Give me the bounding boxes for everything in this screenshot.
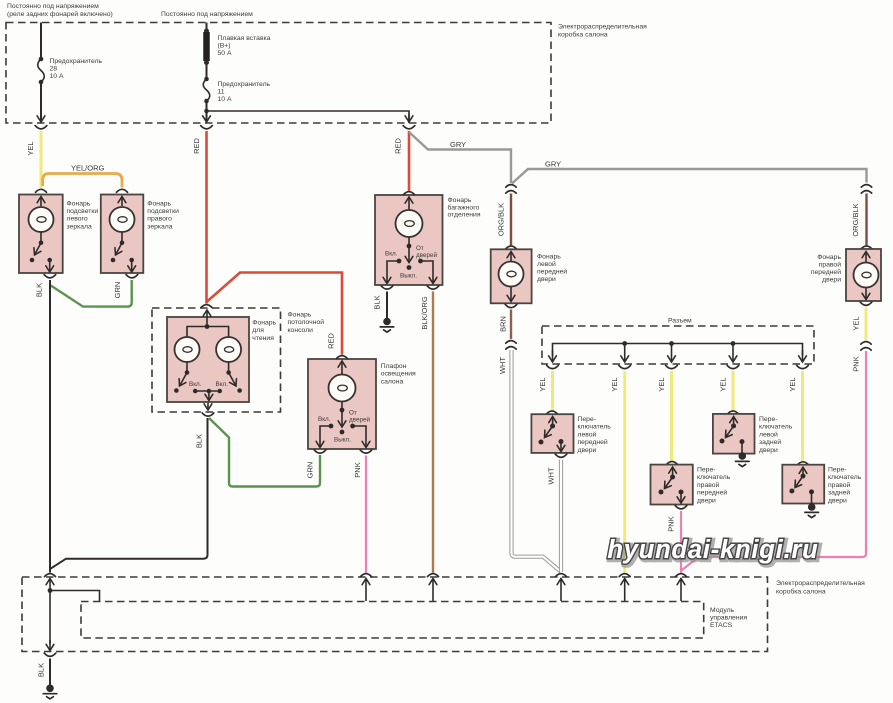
label: luggage lamp — [448, 197, 481, 219]
wire: fuse 28 to box edge, exit arrow — [40, 82, 42, 122]
svg-text:Плафон: Плафон — [381, 363, 407, 370]
svg-text:Вкл.: Вкл. — [189, 381, 202, 388]
svg-text:дверей: дверей — [349, 416, 370, 424]
wire BLK left mirror down — [49, 280, 51, 573]
label: Vkl right — [216, 381, 229, 388]
connector cup: left front switch bottom — [555, 454, 567, 457]
svg-text:RED: RED — [327, 333, 336, 349]
switch arm: left mirror lamp — [30, 232, 44, 262]
label: right front door lamp — [811, 254, 842, 284]
svg-text:Плавкая вставка: Плавкая вставка — [218, 35, 271, 42]
svg-text:ETACS: ETACS — [710, 622, 733, 629]
junction box bottom dashed box — [22, 577, 768, 652]
svg-text:Фонарь: Фонарь — [67, 200, 91, 207]
label: luggage Vkl — [385, 251, 398, 258]
label: luggage Vykl — [400, 273, 417, 280]
svg-text:Предохранитель: Предохранитель — [50, 58, 103, 65]
svg-text:левого: левого — [67, 216, 88, 223]
node: bus junction 2 — [669, 341, 674, 346]
svg-text:Фонарь: Фонарь — [537, 254, 561, 261]
connector cup: luggage lamp top — [404, 192, 415, 195]
label: BLK luggage — [373, 295, 382, 309]
wire YEL/ORG mirror lamp jumper — [43, 174, 122, 188]
connector cup: right rear switch top — [798, 462, 809, 465]
inline connector YEL/PNK — [861, 342, 871, 351]
luggage lamp box — [375, 195, 443, 285]
svg-text:багажного: багажного — [448, 203, 480, 211]
svg-text:двери: двери — [759, 447, 778, 454]
label: YEL drop 3 — [657, 377, 666, 391]
svg-text:управления: управления — [710, 615, 747, 622]
svg-text:левой: левой — [578, 430, 597, 438]
svg-text:YEL: YEL — [788, 377, 797, 391]
wire BLK to ground — [49, 659, 51, 686]
svg-text:задней: задней — [759, 438, 781, 446]
label: junction box top — [558, 24, 647, 39]
connector cup: right door lamp bottom — [860, 302, 872, 305]
label: Vkl left — [189, 381, 202, 388]
connector cup: right front switch top — [667, 462, 678, 465]
svg-text:двери: двери — [828, 497, 847, 504]
wire: fuse 11 junction and branch to right exit — [204, 101, 409, 123]
label: razyem — [668, 318, 692, 325]
label: left front door lamp — [537, 254, 567, 284]
svg-text:задней: задней — [828, 489, 850, 497]
switch: right rear door — [782, 465, 824, 504]
pin: right mirror lamp bottom — [126, 258, 138, 278]
switch: left rear door — [713, 414, 755, 454]
switch: right front door — [651, 465, 693, 505]
wire YEL to left rear door switch — [732, 371, 735, 410]
label: salon lamp — [381, 363, 416, 385]
svg-text:двери: двери — [537, 276, 556, 283]
label: salon Ot dverey — [349, 410, 370, 424]
bulb: left mirror lamp — [29, 197, 54, 233]
label: left front door switch — [578, 416, 612, 454]
svg-text:Постоянно под напряжением: Постоянно под напряжением — [161, 11, 253, 18]
connector cup: salon lamp top — [337, 356, 348, 359]
svg-text:BLK: BLK — [37, 663, 46, 677]
pin: luggage lamp bottom left — [381, 261, 399, 289]
svg-text:PNK: PNK — [353, 462, 362, 477]
svg-text:правого: правого — [147, 216, 172, 223]
pin: luggage lamp bottom right — [421, 261, 439, 289]
label: right mirror lamp — [147, 200, 179, 230]
connector cup: console top — [201, 305, 212, 308]
svg-text:правой: правой — [819, 261, 842, 269]
switch arm: reading lamp right — [226, 362, 242, 393]
connector cup: left door lamp top — [506, 246, 517, 249]
svg-text:BLK: BLK — [195, 434, 204, 448]
svg-text:От: От — [416, 245, 424, 252]
wire ORG/BLK to right front door lamp — [865, 194, 867, 246]
node: bus junction 3 — [731, 341, 736, 346]
svg-text:левой: левой — [759, 430, 778, 438]
svg-text:Выкл.: Выкл. — [334, 437, 351, 444]
svg-text:10 А: 10 А — [50, 73, 64, 80]
svg-text:двери: двери — [578, 447, 597, 454]
svg-text:BLK: BLK — [373, 295, 382, 309]
svg-text:отделения: отделения — [448, 212, 481, 219]
bulb: salon lamp — [329, 361, 356, 402]
wire WHT switch down — [559, 460, 563, 573]
label: ORG/BLK right — [851, 203, 860, 236]
wire: feed to fuse 28 — [40, 23, 42, 60]
switch: luggage lamp — [397, 237, 423, 270]
label: GRN mirror — [113, 282, 122, 299]
svg-text:GRY: GRY — [545, 160, 561, 169]
bulb: left front door lamp — [499, 252, 524, 302]
label: ORG/BLK left — [497, 203, 506, 236]
svg-text:Фонарь: Фонарь — [817, 254, 841, 261]
label: BRN — [499, 316, 508, 332]
svg-text:WHT: WHT — [547, 467, 556, 484]
svg-text:GRY: GRY — [450, 140, 466, 149]
wire: feed to fusible link — [206, 23, 208, 32]
label: YEL — [26, 141, 35, 155]
svg-text:передней: передней — [578, 438, 608, 446]
svg-text:Разъем: Разъем — [668, 318, 692, 325]
wire PNK right door lamp to junction box — [681, 351, 866, 571]
label: BLK console — [195, 434, 204, 448]
svg-text:Вкл.: Вкл. — [385, 251, 398, 258]
ground: left rear switch — [736, 452, 750, 466]
svg-text:чтения: чтения — [252, 335, 274, 342]
wire WHT lamp down to junction box — [512, 350, 562, 572]
label: YEL drop 4 — [719, 377, 728, 391]
svg-text:YEL: YEL — [719, 377, 728, 391]
svg-text:GRN: GRN — [113, 282, 122, 299]
label: left mirror lamp — [67, 200, 99, 230]
svg-text:Фонарь: Фонарь — [147, 200, 171, 207]
label: YEL drop 1 — [538, 377, 547, 391]
label: GRN salon — [306, 462, 315, 479]
watermark — [607, 536, 820, 566]
connector cup: left mirror lamp top — [36, 189, 47, 192]
label: fuse 11 value — [218, 81, 271, 103]
bulb: right front door lamp — [854, 252, 879, 300]
svg-text:RED: RED — [394, 138, 403, 154]
pin: razyem drop 2 — [619, 344, 631, 369]
pin: razyem drop 4 — [727, 344, 739, 369]
label: RED right — [394, 138, 403, 154]
svg-text:BLK: BLK — [35, 283, 44, 297]
svg-text:YEL: YEL — [610, 377, 619, 391]
svg-text:Выкл.: Выкл. — [400, 273, 417, 280]
label: fuse 28 value — [50, 58, 103, 80]
label: WHT lamp — [498, 357, 507, 374]
svg-text:ключатель: ключатель — [759, 424, 793, 431]
node: bus junction 1 — [622, 341, 627, 346]
bulb: luggage lamp — [396, 197, 423, 237]
switch: salon lamp — [329, 402, 355, 435]
label: WHT switch — [547, 467, 556, 484]
label: power feed left — [7, 3, 113, 18]
pin: reading lamp top arrow — [205, 310, 210, 329]
pin: razyem drop 1 — [547, 350, 559, 369]
svg-text:потолочной: потолочной — [288, 318, 325, 326]
connector bus line — [553, 344, 803, 357]
label: reading lamp — [252, 320, 276, 342]
connector cup: right mirror lamp top — [117, 189, 128, 192]
label: GRY 2 — [545, 160, 561, 169]
label: YEL/ORG — [71, 164, 105, 173]
bulb: reading lamp left — [175, 327, 208, 363]
svg-text:ключатель: ключатель — [578, 424, 612, 431]
connector cup: YEL exit — [35, 126, 47, 129]
svg-text:салона: салона — [381, 378, 404, 385]
label: power feed middle — [161, 11, 253, 18]
pin: razyem drop 5 — [797, 350, 809, 369]
svg-text:зеркала: зеркала — [67, 223, 92, 230]
pin: salon lamp bottom right — [353, 426, 372, 453]
svg-text:двери: двери — [697, 497, 716, 504]
svg-text:Фонарь: Фонарь — [252, 320, 276, 327]
label: salon Vykl — [334, 437, 351, 444]
ground: main BLK — [43, 685, 57, 699]
wire YEL right down — [865, 308, 868, 341]
ground: right rear switch — [805, 503, 819, 517]
svg-text:двери: двери — [822, 277, 841, 284]
svg-text:hyundai-knigi.ru: hyundai-knigi.ru — [607, 536, 818, 564]
label: RED left — [192, 138, 201, 154]
left front door lamp box — [491, 249, 532, 303]
label: YEL drop 2 — [610, 377, 619, 391]
svg-text:ключатель: ключатель — [697, 474, 731, 481]
svg-text:YEL/ORG: YEL/ORG — [71, 164, 105, 173]
wire YEL to right rear door switch — [801, 371, 804, 461]
entry: PNK switches into junction box — [676, 574, 687, 601]
wire PNK salon lamp down — [365, 456, 367, 573]
wire RED to ceiling console — [205, 131, 208, 304]
svg-text:ORG/BLK: ORG/BLK — [497, 203, 506, 236]
bulb: reading lamp right — [207, 327, 241, 363]
switch arm: reading lamp left — [174, 362, 189, 393]
svg-text:YEL: YEL — [538, 377, 547, 391]
svg-text:BLK/ORG: BLK/ORG — [420, 296, 429, 330]
label: salon Vkl — [318, 416, 331, 423]
label: right front door switch — [697, 467, 731, 505]
connector cup: left front switch top — [547, 411, 558, 414]
lamp: right mirror illumination box — [101, 195, 144, 274]
svg-text:Вкл.: Вкл. — [216, 381, 229, 388]
svg-text:Пере-: Пере- — [578, 416, 597, 423]
svg-text:PNK: PNK — [667, 516, 676, 531]
fuse F11 — [203, 77, 210, 104]
label: RED salon — [327, 333, 336, 349]
svg-text:BRN: BRN — [499, 316, 508, 332]
entry: BLK/ORG into junction box — [428, 574, 439, 601]
svg-text:передней: передней — [811, 268, 841, 276]
wire ORG/BLK to left front door lamp — [510, 194, 512, 246]
label: luggage Ot dverey — [416, 245, 437, 259]
label: PNK right — [852, 356, 861, 371]
svg-text:передней: передней — [537, 268, 567, 276]
svg-text:WHT: WHT — [498, 357, 507, 374]
wire YEL from junction box — [40, 131, 43, 188]
svg-text:Пере-: Пере- — [828, 467, 847, 474]
svg-text:YEL: YEL — [26, 141, 35, 155]
ceiling console dashed box — [152, 308, 281, 412]
svg-text:PNK: PNK — [852, 356, 861, 371]
svg-text:коробка салона: коробка салона — [558, 31, 608, 39]
arrow: RED exit right — [403, 114, 415, 129]
pin: razyem drop 3 — [666, 344, 678, 369]
entry: BLK into junction box — [45, 574, 56, 644]
svg-text:Фонарь: Фонарь — [448, 197, 472, 204]
lamp: left mirror illumination box — [19, 195, 63, 274]
svg-text:Предохранитель: Предохранитель — [218, 81, 271, 88]
salon lamp box — [308, 359, 376, 449]
inline connector GRY/ORG-BLK right — [861, 185, 871, 194]
contact bar: reading lamp — [193, 389, 222, 394]
svg-text:RED: RED — [192, 138, 201, 154]
label: BLK mirror — [35, 283, 44, 297]
svg-text:GRN: GRN — [306, 462, 315, 479]
switch arm: right mirror lamp — [111, 232, 125, 262]
fusible link (B+) 50A — [204, 29, 209, 66]
svg-text:ключатель: ключатель — [828, 474, 862, 481]
ETACS module dashed box — [81, 602, 704, 639]
right front door lamp box — [846, 249, 881, 301]
svg-text:11: 11 — [218, 89, 225, 96]
wire YEL to ETACS — [623, 371, 626, 573]
wire RED to luggage lamp — [408, 131, 411, 191]
inline connector BRN/WHT — [506, 341, 516, 350]
label: YEL right — [852, 316, 861, 330]
svg-text:YEL: YEL — [852, 316, 861, 330]
junction box (interior) top dashed box — [6, 23, 551, 124]
wire GRN right mirror to left mirror BLK — [51, 280, 132, 307]
inline connector GRY/ORG-BLK left — [506, 185, 516, 194]
svg-text:Модуль: Модуль — [710, 607, 735, 614]
wire BLK console down and left — [50, 418, 207, 569]
svg-text:От: От — [349, 410, 357, 417]
svg-text:YEL: YEL — [657, 377, 666, 391]
label: left rear door switch — [759, 416, 793, 454]
wire RED branch console to salon lamp — [207, 273, 343, 355]
entry: YEL into junction box — [619, 574, 630, 601]
svg-text:Фонарь: Фонарь — [288, 312, 312, 319]
label: BLK/ORG — [420, 296, 429, 330]
node: BLK junction inside box — [48, 588, 100, 601]
svg-text:правой: правой — [697, 481, 720, 489]
entry: PNK salon into junction box — [361, 574, 372, 601]
svg-text:ORG/BLK: ORG/BLK — [851, 203, 860, 236]
label: BLK bottom — [37, 663, 46, 677]
label: fusible link value — [218, 35, 271, 57]
label: ETACS module — [710, 607, 747, 629]
wire GRY to left front door lamp — [409, 132, 511, 183]
pin: left mirror lamp bottom — [44, 258, 56, 278]
svg-text:зеркала: зеркала — [147, 223, 172, 230]
svg-text:10 А: 10 А — [218, 96, 232, 103]
connector cup: left rear switch top — [728, 411, 739, 414]
svg-text:Постоянно под напряжением: Постоянно под напряжением — [7, 3, 99, 10]
fuse F28 — [38, 57, 45, 85]
exit: BLK from junction box — [44, 640, 56, 656]
wire GRN console to salon lamp — [209, 418, 320, 487]
label: GRY 1 — [450, 140, 466, 149]
svg-text:левой: левой — [537, 260, 556, 268]
svg-text:правой: правой — [828, 481, 851, 489]
label: YEL drop 5 — [788, 377, 797, 391]
pin: salon lamp bottom left — [314, 426, 331, 453]
entry: WHT into junction box — [556, 574, 567, 601]
connector dashed box razyem — [542, 326, 814, 364]
wire: link to fuse 11 — [206, 63, 208, 80]
svg-text:подсветки: подсветки — [67, 208, 99, 215]
svg-text:Электрораспределительная: Электрораспределительная — [558, 24, 647, 31]
svg-text:Вкл.: Вкл. — [318, 416, 331, 423]
pin: reading lamp bottom arrows — [202, 391, 214, 416]
label: junction box bottom — [776, 580, 865, 596]
label: ceiling console — [288, 312, 325, 334]
label: PNK salon — [353, 462, 362, 477]
svg-text:дверей: дверей — [416, 251, 437, 259]
svg-text:Пере-: Пере- — [759, 416, 778, 423]
svg-text:передней: передней — [697, 489, 727, 497]
bulb: right mirror lamp — [110, 197, 135, 233]
svg-text:Электрораспределительная: Электрораспределительная — [776, 580, 865, 587]
connector cup: right door lamp top — [861, 246, 872, 249]
wire YEL to left front door switch — [551, 371, 554, 410]
svg-text:для: для — [252, 327, 264, 334]
ground: luggage lamp — [380, 318, 394, 332]
wire PNK switch down — [680, 511, 682, 573]
label: right rear door switch — [828, 467, 862, 505]
svg-text:Пере-: Пере- — [697, 467, 716, 474]
svg-text:50 А: 50 А — [218, 50, 232, 57]
svg-text:(B+): (B+) — [218, 43, 231, 50]
wire YEL to right front door switch — [670, 371, 673, 461]
label: PNK switch — [667, 516, 676, 531]
svg-text:консоли: консоли — [288, 327, 314, 334]
connector cup: right front switch bottom — [675, 506, 687, 509]
svg-text:подсветки: подсветки — [147, 208, 179, 215]
svg-text:(реле задних фонарей включено): (реле задних фонарей включено) — [7, 10, 113, 18]
svg-text:коробка салона: коробка салона — [776, 588, 826, 596]
wire BLK/ORG luggage down — [432, 292, 434, 573]
wire BLK luggage to ground — [386, 292, 388, 319]
switch: left front door — [531, 414, 573, 453]
connector cup: RED exit left — [201, 126, 213, 129]
reading lamp box — [167, 317, 249, 402]
svg-text:28: 28 — [50, 66, 58, 73]
wire BRN down — [510, 310, 512, 340]
connector cup: left door lamp bottom — [505, 304, 517, 307]
svg-text:освещения: освещения — [381, 371, 416, 378]
wire GRY to right front door lamp — [512, 169, 867, 184]
